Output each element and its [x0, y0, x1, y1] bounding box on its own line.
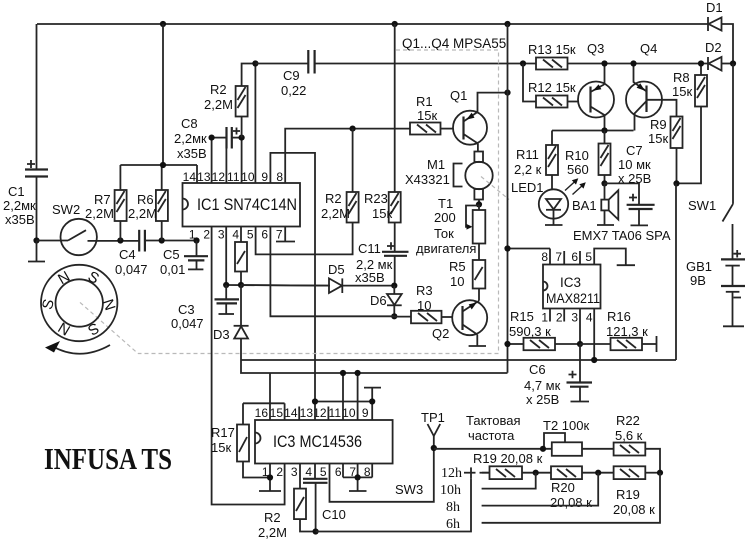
node pin7	[355, 474, 361, 480]
svg-text:6: 6	[571, 250, 578, 264]
svg-text:5: 5	[320, 465, 327, 479]
svg-text:11: 11	[227, 170, 240, 184]
svg-text:C8: C8	[181, 116, 198, 131]
svg-text:0,047: 0,047	[115, 262, 148, 277]
node C1 bottom on rail	[33, 237, 39, 243]
wire IC1 pin9 riser jog	[270, 153, 315, 402]
diode D2	[705, 40, 722, 71]
svg-text:0,01: 0,01	[160, 262, 185, 277]
svg-text:4: 4	[586, 311, 593, 325]
svg-text:200: 200	[434, 210, 456, 225]
svg-text:2,2 к: 2,2 к	[514, 162, 542, 177]
node R2top junction on R1 wire	[350, 126, 356, 132]
svg-text:6h: 6h	[446, 517, 460, 532]
capacitor C1	[3, 24, 48, 241]
svg-text:C11: C11	[358, 241, 381, 256]
svg-text:C7: C7	[626, 143, 643, 158]
svg-text:частота: частота	[468, 428, 515, 443]
svg-text:R8: R8	[673, 70, 690, 85]
svg-text:560: 560	[567, 162, 589, 177]
svg-text:12: 12	[212, 170, 226, 184]
resistor on IC1 pin4	[235, 227, 247, 286]
motor M1	[405, 152, 493, 205]
svg-text:двигателя: двигателя	[416, 241, 476, 256]
wire IC1 pin5 to R2 bottom	[256, 227, 353, 255]
pin numbers IC1 top	[183, 170, 284, 184]
node pin3 wire	[223, 282, 229, 288]
svg-text:15: 15	[270, 406, 284, 420]
node C10 bottom	[313, 528, 319, 534]
wire IC2 top stubs	[270, 373, 381, 420]
capacitor C5	[160, 241, 208, 278]
svg-text:20,08 к: 20,08 к	[550, 495, 592, 510]
svg-text:C9: C9	[283, 68, 300, 83]
resistor R2 mid	[321, 129, 359, 254]
node y165	[160, 162, 166, 168]
resistor R6	[128, 165, 168, 241]
svg-text:INFUSA TS: INFUSA TS	[44, 441, 172, 476]
node TP1	[431, 445, 437, 451]
node after R19b	[657, 470, 663, 476]
svg-text:7: 7	[276, 228, 283, 242]
svg-text:SW1: SW1	[688, 198, 716, 213]
capacitor C7	[605, 143, 655, 225]
node collector row	[601, 127, 607, 133]
pin numbers MAX8211 top	[541, 250, 592, 264]
node speaker row	[601, 180, 607, 186]
magnet rotor	[39, 265, 119, 354]
node main rail top	[504, 21, 510, 27]
svg-text:R19 20,08 к: R19 20,08 к	[473, 451, 543, 466]
svg-text:R13 15к: R13 15к	[528, 42, 576, 57]
svg-text:R6: R6	[137, 192, 154, 207]
resistor R3	[394, 283, 452, 323]
node pin10 top	[252, 60, 258, 66]
node Q4 top	[630, 60, 636, 66]
node Q1 emitter to rail	[504, 90, 510, 96]
resistor R10	[565, 131, 611, 184]
svg-text:6: 6	[335, 465, 342, 479]
wire x163 rail and pin14 link	[120, 24, 197, 183]
resistor R20	[550, 466, 614, 510]
wire 8h tap	[482, 473, 599, 506]
svg-text:x35В: x35В	[355, 270, 385, 285]
resistor R8	[672, 64, 707, 184]
svg-text:R11: R11	[516, 147, 539, 162]
dash-dot mechanism box	[80, 50, 509, 354]
svg-text:10: 10	[342, 406, 356, 420]
node R23 column top	[392, 21, 398, 27]
svg-text:D5: D5	[328, 262, 345, 277]
svg-text:x 25В: x 25В	[526, 392, 559, 407]
svg-text:590,3 к: 590,3 к	[509, 324, 551, 339]
svg-text:0,047: 0,047	[171, 316, 204, 331]
svg-text:9В: 9В	[690, 273, 706, 288]
svg-text:12h: 12h	[441, 466, 462, 481]
resistor R1	[410, 94, 453, 135]
node after R19	[533, 470, 539, 476]
ground stub left	[28, 241, 45, 262]
svg-text:2: 2	[556, 311, 563, 325]
svg-text:C5: C5	[163, 247, 180, 262]
wire IC1 pin11 riser	[241, 138, 243, 183]
svg-text:3: 3	[218, 228, 225, 242]
svg-text:10 мк: 10 мк	[618, 157, 651, 172]
svg-text:15к: 15к	[372, 206, 392, 221]
wire IC2 pin5 SW3 common	[330, 448, 434, 502]
trimmer T2	[434, 418, 590, 456]
switch SW1	[688, 64, 733, 260]
wire IC1 pin12 riser	[225, 140, 227, 183]
svg-text:R2: R2	[325, 191, 342, 206]
node pin10 feed	[355, 370, 361, 376]
svg-text:2,2M: 2,2M	[321, 206, 350, 221]
svg-text:2,2M: 2,2M	[204, 97, 233, 112]
wire W1 row y360	[241, 183, 676, 360]
capacitor C3	[171, 285, 239, 331]
svg-text:C10: C10	[322, 507, 346, 522]
node D5 cathode	[391, 283, 397, 289]
svg-text:IC1 SN74C14N: IC1 SN74C14N	[197, 196, 297, 214]
IC IC1 SN74C14N	[183, 183, 301, 227]
svg-text:8: 8	[541, 250, 548, 264]
capacitor C11	[355, 241, 409, 286]
pin numbers IC1 bottom	[189, 228, 283, 242]
resistor R22	[582, 413, 660, 473]
node R13 left	[520, 60, 526, 66]
diode D1	[706, 0, 723, 31]
capacitor C8	[174, 116, 242, 161]
wire top rail	[37, 24, 733, 64]
resistor R15	[508, 309, 581, 350]
node R7 bottom	[117, 237, 123, 243]
svg-text:R10: R10	[565, 148, 589, 163]
svg-text:15к: 15к	[417, 108, 437, 123]
svg-text:TP1: TP1	[421, 410, 445, 425]
svg-text:R2: R2	[264, 510, 281, 525]
svg-text:1: 1	[189, 228, 196, 242]
svg-text:R15: R15	[510, 309, 534, 324]
svg-text:4,7 мк: 4,7 мк	[524, 378, 561, 393]
svg-text:Ток: Ток	[434, 226, 454, 241]
svg-text:T1: T1	[438, 196, 453, 211]
resistor R19 top	[473, 451, 551, 479]
svg-text:x35В: x35В	[177, 146, 207, 161]
svg-text:R12 15к: R12 15к	[528, 80, 576, 95]
speaker BA1	[572, 183, 618, 225]
pin numbers IC2 bottom	[262, 465, 371, 479]
svg-text:20,08 к: 20,08 к	[613, 502, 655, 517]
node pin13 riser	[312, 398, 318, 404]
svg-text:R5: R5	[449, 259, 466, 274]
svg-text:R2: R2	[210, 82, 227, 97]
pin numbers IC2 top	[255, 406, 369, 420]
svg-text:R20: R20	[551, 480, 575, 495]
resistor R23	[364, 191, 401, 251]
svg-text:121,3 к: 121,3 к	[606, 324, 648, 339]
svg-text:R7: R7	[94, 192, 111, 207]
svg-text:C4: C4	[119, 247, 136, 262]
wire 10h tap	[482, 473, 536, 489]
svg-text:15к: 15к	[648, 131, 668, 146]
svg-text:MAX8211: MAX8211	[546, 291, 600, 306]
capacitor C6	[524, 344, 592, 407]
node emitter rail	[673, 180, 679, 186]
svg-text:IC3 MC14536: IC3 MC14536	[273, 432, 362, 451]
LED LED1	[511, 175, 586, 225]
resistor R2 bottom	[258, 464, 316, 541]
svg-text:9: 9	[261, 170, 268, 184]
wire IC1 pin2 to IC2 pin2	[212, 227, 285, 505]
svg-text:2: 2	[203, 228, 210, 242]
svg-text:M1: M1	[427, 157, 445, 172]
svg-text:Q1...Q4 MPSA55: Q1...Q4 MPSA55	[402, 36, 506, 51]
svg-text:R16: R16	[607, 309, 631, 324]
wire IC2 pin1 ground	[259, 464, 281, 492]
wire IC1 pin8 riser to R1	[285, 129, 410, 183]
node C8 right	[239, 135, 245, 141]
wire 12h bottom link	[316, 479, 471, 532]
resistor R13	[528, 42, 576, 70]
node R8 top	[698, 60, 704, 66]
wire IC1 pin6 to R3	[270, 227, 394, 317]
svg-text:5: 5	[585, 250, 592, 264]
transistor Q4	[626, 41, 677, 131]
pin7 stub IC1	[276, 227, 295, 242]
capacitor C4	[115, 230, 197, 277]
svg-text:5: 5	[247, 228, 254, 242]
IC IC3 MAX8211	[543, 265, 601, 309]
wire R23 column	[394, 24, 396, 192]
test point TP1	[421, 410, 445, 448]
svg-text:X43321: X43321	[405, 172, 450, 187]
node pin1	[267, 474, 273, 480]
svg-text:Q4: Q4	[640, 41, 657, 56]
svg-text:C3: C3	[178, 302, 195, 317]
node after R20	[595, 470, 601, 476]
pin numbers MAX8211 bottom	[541, 311, 593, 325]
IC IC3 MC14536	[255, 420, 393, 464]
svg-text:R17: R17	[211, 425, 235, 440]
wire IC1 pin13 riser	[211, 138, 213, 183]
resistor R17	[211, 403, 285, 477]
resistor R7	[85, 165, 127, 241]
svg-text:x 25В: x 25В	[618, 171, 651, 186]
svg-text:15к: 15к	[672, 84, 692, 99]
svg-text:13: 13	[197, 170, 211, 184]
svg-text:13: 13	[300, 406, 314, 420]
svg-text:2,2M: 2,2M	[128, 206, 157, 221]
svg-text:3: 3	[571, 311, 578, 325]
node T2 left	[540, 446, 546, 452]
switch SW3 12h contact	[464, 467, 490, 478]
resistor R5	[449, 259, 485, 301]
svg-text:7: 7	[555, 250, 562, 264]
node rail R15	[504, 341, 510, 347]
node M1 bottom	[476, 201, 482, 207]
node pin11 feed	[340, 370, 346, 376]
svg-text:11: 11	[329, 406, 342, 420]
svg-text:10: 10	[450, 274, 464, 289]
svg-text:9: 9	[362, 406, 369, 420]
svg-text:Тактовая: Тактовая	[466, 413, 521, 428]
diode D6	[370, 286, 402, 317]
svg-text:2,2мк: 2,2мк	[174, 131, 207, 146]
wire IC1 pin3 pin4 row	[226, 227, 330, 286]
svg-text:R3: R3	[416, 283, 433, 298]
svg-text:5,6 к: 5,6 к	[615, 428, 643, 443]
main rail x507	[507, 24, 509, 373]
svg-text:T2 100к: T2 100к	[543, 418, 589, 433]
resistor R9	[648, 117, 683, 184]
svg-text:2,2M: 2,2M	[258, 525, 287, 540]
svg-text:D1: D1	[706, 0, 723, 15]
node pin3 C6	[577, 341, 583, 347]
svg-text:Q3: Q3	[587, 41, 604, 56]
transistor Q1	[450, 88, 508, 152]
svg-text:Q2: Q2	[432, 326, 449, 341]
svg-text:8h: 8h	[446, 500, 460, 515]
node top-left junction	[160, 21, 166, 27]
node C8 left	[209, 135, 215, 141]
svg-text:GB1: GB1	[686, 259, 712, 274]
svg-text:BA1: BA1	[572, 198, 597, 213]
svg-text:C1: C1	[8, 184, 25, 199]
svg-text:10: 10	[241, 170, 255, 184]
svg-text:10h: 10h	[440, 483, 461, 498]
svg-text:R9: R9	[650, 117, 667, 132]
resistor R12	[523, 64, 578, 108]
svg-text:15к: 15к	[211, 440, 231, 455]
svg-text:16: 16	[255, 406, 269, 420]
wire IC1 pin10 riser	[254, 64, 256, 184]
node pin4 wire	[238, 282, 244, 288]
svg-text:R19: R19	[616, 487, 640, 502]
svg-text:14: 14	[284, 406, 298, 420]
svg-text:3: 3	[291, 465, 298, 479]
node D6 bottom	[391, 313, 397, 319]
capacitor C10	[303, 464, 346, 532]
wire 6h tap	[482, 473, 660, 523]
wire Q3 Q4 collector row	[552, 130, 634, 132]
node D2 right	[730, 60, 736, 66]
svg-text:EMX7 TA06 SPA: EMX7 TA06 SPA	[573, 228, 671, 243]
resistor R19 bottom	[613, 466, 660, 517]
svg-text:IC3: IC3	[560, 275, 581, 290]
svg-text:R23: R23	[364, 191, 388, 206]
resistor R11	[514, 131, 558, 178]
svg-text:14: 14	[183, 170, 197, 184]
svg-text:x35В: x35В	[5, 212, 35, 227]
svg-text:D2: D2	[705, 40, 722, 55]
node pin4 W1	[591, 357, 597, 363]
battery GB1	[686, 250, 745, 326]
svg-text:Q1: Q1	[450, 88, 467, 103]
svg-text:2,2M: 2,2M	[85, 206, 114, 221]
node rail pin8	[504, 245, 510, 251]
transistor Q3	[578, 41, 614, 131]
node IC1 pin1	[193, 237, 199, 243]
svg-text:1: 1	[541, 311, 548, 325]
svg-text:8: 8	[276, 170, 283, 184]
svg-text:SW3: SW3	[395, 482, 423, 497]
svg-text:C6: C6	[529, 362, 546, 377]
diode D3	[213, 285, 249, 360]
resistor R16	[580, 309, 657, 352]
svg-text:4: 4	[305, 465, 312, 479]
diode D5	[241, 262, 394, 293]
svg-text:2: 2	[276, 465, 283, 479]
svg-text:SW2: SW2	[52, 202, 80, 217]
wire IC2 feed row y373	[241, 360, 508, 373]
svg-text:D6: D6	[370, 293, 387, 308]
wire MAX8211 top pins	[508, 249, 636, 266]
svg-text:0,22: 0,22	[281, 83, 306, 98]
svg-text:2,2мк: 2,2мк	[3, 198, 36, 213]
node Q3 top	[601, 60, 607, 66]
wire IC2 pins678 ground	[343, 464, 372, 492]
wire MAX8211 bottom stubs	[550, 309, 594, 361]
svg-text:4: 4	[232, 228, 239, 242]
node pin9 riser	[369, 398, 375, 404]
svg-text:6: 6	[261, 228, 268, 242]
svg-text:D3: D3	[213, 327, 230, 342]
trimmer T1	[416, 196, 485, 260]
label clock frequency	[466, 413, 521, 443]
svg-text:R22: R22	[616, 413, 640, 428]
resistor R2 top	[204, 64, 255, 138]
capacitor C9	[255, 50, 314, 98]
svg-text:LED1: LED1	[511, 180, 544, 195]
node R6 bottom	[159, 237, 165, 243]
transistor Q2	[432, 300, 487, 346]
svg-text:R1: R1	[416, 94, 433, 109]
switch SW2	[37, 202, 140, 255]
svg-text:10: 10	[417, 298, 431, 313]
wire Vcc rail y63	[315, 63, 733, 65]
